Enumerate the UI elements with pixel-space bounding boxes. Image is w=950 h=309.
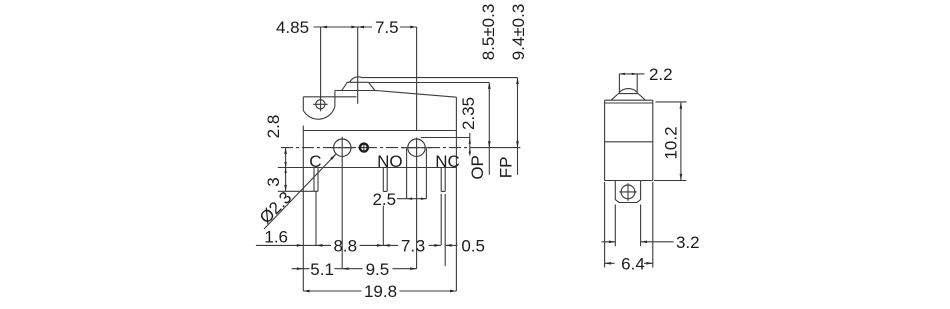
svg-text:19.8: 19.8 [364, 282, 397, 301]
svg-text:FP: FP [497, 157, 516, 179]
svg-text:7.5: 7.5 [375, 18, 399, 37]
svg-text:3: 3 [264, 177, 283, 186]
svg-text:9.5: 9.5 [366, 260, 390, 279]
svg-text:NC: NC [435, 152, 460, 171]
svg-text:10.2: 10.2 [662, 126, 681, 159]
svg-text:2.35: 2.35 [459, 97, 478, 130]
svg-text:5.1: 5.1 [310, 260, 334, 279]
svg-text:2.8: 2.8 [264, 115, 283, 139]
svg-text:1.6: 1.6 [264, 228, 288, 247]
svg-text:3: 3 [416, 236, 425, 255]
svg-text:0.5: 0.5 [461, 237, 485, 256]
svg-text:6.4: 6.4 [621, 255, 645, 274]
svg-text:3.2: 3.2 [676, 233, 700, 252]
svg-text:9.4±0.3: 9.4±0.3 [509, 4, 528, 61]
svg-text:7.: 7. [401, 236, 415, 255]
svg-text:C: C [309, 152, 321, 171]
svg-text:8.5±0.3: 8.5±0.3 [479, 4, 498, 61]
svg-text:2.2: 2.2 [649, 65, 673, 84]
svg-text:4.85: 4.85 [276, 18, 309, 37]
svg-text:2.5: 2.5 [372, 190, 396, 209]
svg-text:OP: OP [468, 155, 487, 180]
svg-text:NO: NO [377, 152, 403, 171]
svg-text:8.8: 8.8 [333, 236, 357, 255]
